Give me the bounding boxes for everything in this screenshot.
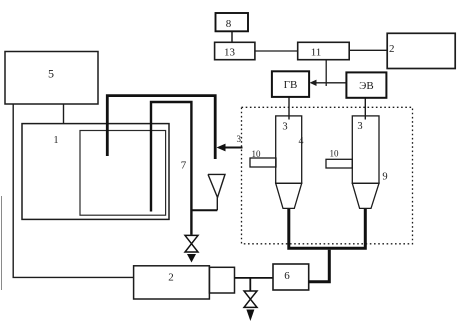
scan artifact line: [1, 196, 3, 290]
box 6: [273, 264, 309, 290]
box 11: [298, 42, 350, 59]
funnel (sampling cone): [208, 174, 225, 210]
wire outlet to box 6: [235, 277, 274, 279]
wire box5 to box2 (left loop): [13, 104, 133, 277]
svg-text:11: 11: [311, 47, 322, 59]
box 2 (top right): [387, 33, 455, 68]
wire funnel to line 7: [191, 209, 217, 211]
svg-text:3: 3: [237, 134, 242, 144]
inlet 10 (right): [326, 159, 352, 168]
svg-text:6: 6: [284, 270, 290, 282]
cyclone 4 body: [276, 116, 302, 183]
svg-text:ЭВ: ЭВ: [359, 80, 374, 92]
wire 13 to 11: [255, 50, 298, 52]
svg-text:9: 9: [382, 172, 387, 183]
wire 11 to box 2 top right: [349, 49, 387, 51]
cyclone 9 body: [352, 116, 379, 183]
svg-text:4: 4: [299, 136, 304, 147]
pipe B (from inner box over to line 7): [151, 102, 191, 235]
svg-text:3: 3: [357, 121, 362, 132]
pipe A (from cyclones into box 1): [107, 96, 215, 159]
svg-text:13: 13: [224, 47, 236, 59]
svg-text:3: 3: [282, 122, 287, 133]
box EV: [346, 72, 386, 97]
wire 11 to GV/EV tee: [325, 60, 327, 86]
wire box5 to box1: [63, 104, 65, 124]
svg-text:10: 10: [330, 149, 340, 159]
inner box of 1: [80, 131, 166, 216]
svg-text:2: 2: [168, 272, 174, 284]
svg-text:ГВ: ГВ: [284, 79, 298, 91]
valve V1 above box 2: [185, 235, 198, 243]
svg-text:5: 5: [48, 67, 54, 81]
inlet 10 (left): [250, 158, 276, 167]
wire 8 to 13: [231, 31, 233, 42]
box 13: [215, 42, 255, 59]
wire GV to cyclone 4: [288, 97, 290, 120]
svg-text:7: 7: [181, 160, 187, 172]
svg-text:8: 8: [226, 18, 232, 30]
box 1: [22, 124, 169, 220]
box 8: [216, 13, 249, 31]
box 2 outlet stub: [209, 267, 234, 293]
pipe U from cyclones: [289, 209, 366, 248]
pipe down-leg to box 6: [309, 250, 330, 282]
svg-text:2: 2: [389, 43, 395, 55]
cyclone 4 funnel: [276, 183, 302, 208]
cyclone 9 funnel: [352, 183, 379, 208]
arrow into pipe A: [223, 147, 243, 149]
wire EV to cyclone 9: [364, 98, 366, 120]
box 5: [5, 52, 98, 105]
box 2 (mill): [134, 266, 210, 299]
dotted enclosure: [242, 107, 413, 244]
box GV: [272, 71, 309, 97]
svg-text:1: 1: [54, 135, 59, 146]
svg-text:10: 10: [252, 149, 262, 159]
valve V2 below wire: [249, 278, 251, 291]
